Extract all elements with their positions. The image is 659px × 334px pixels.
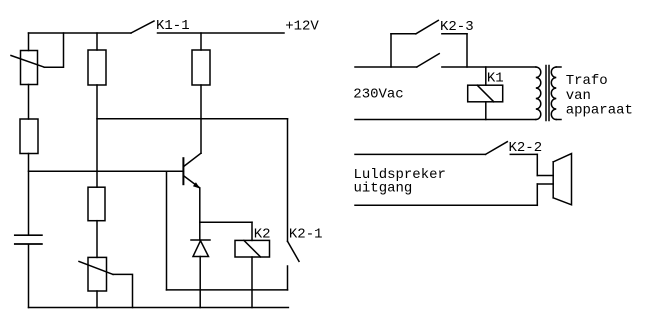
switch K2-3 upper blade: [416, 20, 438, 33]
resistor R1 body: [21, 51, 38, 85]
wire emitter vertical: [199, 188, 201, 240]
capacitor C1 plate top: [15, 234, 42, 236]
resistor R5 body: [88, 257, 107, 291]
wire secondary stub bottom: [556, 119, 561, 121]
wire column2 bottom: [96, 291, 98, 308]
wire emitter to relay branch: [200, 221, 252, 223]
wire detour right vertical: [466, 34, 468, 67]
svg-text:Trafo: Trafo: [566, 73, 608, 89]
wire 230V top right: [442, 66, 536, 68]
diode D1 cathode bar: [191, 239, 210, 241]
wire speaker terminal bottom: [537, 183, 553, 185]
svg-text:+12V: +12V: [285, 18, 319, 34]
svg-text:230Vac: 230Vac: [353, 87, 403, 103]
wire speaker top right: [510, 153, 537, 155]
wire relay K1 top lead: [485, 67, 487, 85]
switch K2-1 blade: [288, 241, 300, 261]
relay coil K1 diagonal: [477, 85, 494, 102]
svg-text:K1-1: K1-1: [156, 18, 190, 34]
wire speaker top left: [355, 153, 486, 155]
transformer T1 core line 1: [545, 66, 547, 121]
diode D1 triangle: [193, 241, 209, 257]
wire column1 between R1 and R3: [28, 85, 30, 120]
wire detour top left: [391, 33, 416, 35]
wire speaker bottom vertical: [536, 184, 538, 205]
wire switch K2-1 top: [287, 119, 289, 242]
wire top rail right segment: [158, 32, 285, 34]
wire relay K1 bottom lead: [485, 102, 487, 120]
wire speaker terminal top: [537, 175, 553, 177]
resistor R5 adjust arrow: [79, 262, 113, 275]
resistor R3 body: [20, 119, 38, 154]
wire relay K2 bottom lead: [251, 257, 253, 308]
transformer T1 core line 2: [548, 66, 550, 121]
wire diode to bottom rail: [199, 257, 201, 308]
wire 230V top left: [355, 66, 417, 68]
resistor R4 body: [88, 187, 105, 221]
wire R1 wiper to rail: [44, 33, 63, 67]
svg-text:K2-3: K2-3: [440, 19, 474, 35]
wire top rail left segment: [29, 32, 132, 34]
speaker LS1 cone: [553, 154, 571, 205]
capacitor C1 plate bottom: [15, 243, 42, 245]
relay coil K1 body: [468, 85, 503, 102]
switch K1-1 blade: [131, 21, 154, 33]
svg-text:K1: K1: [487, 71, 504, 87]
relay coil K2 diagonal: [244, 240, 261, 257]
wire base line node: [29, 170, 184, 172]
wire 230V bottom: [355, 119, 536, 121]
transistor Q1 collector lead: [184, 153, 201, 166]
wire column1 top: [28, 33, 30, 51]
transistor Q1 emitter lead: [184, 176, 200, 188]
transistor Q1 base bar: [182, 158, 184, 184]
wire R5 wiper to bottom rail: [113, 274, 133, 307]
wire base branch vertical: [166, 171, 168, 290]
svg-text:K2: K2: [254, 227, 271, 243]
transistor Q1 emitter arrowhead: [193, 182, 200, 188]
wire bottom rail: [29, 307, 289, 309]
svg-text:uitgang: uitgang: [354, 181, 413, 197]
wire column1 bottom: [28, 244, 30, 307]
transformer T1 secondary winding: [551, 67, 556, 120]
speaker LS1 bar: [552, 162, 554, 198]
wire column2 middle: [96, 85, 98, 187]
resistor R1 adjust arrow: [11, 56, 44, 68]
wire speaker bottom: [355, 204, 537, 206]
wire secondary stub top: [556, 66, 561, 68]
switch K2-3 lower blade: [417, 54, 439, 67]
svg-text:K2-1: K2-1: [289, 227, 323, 243]
wire between R4 and R5: [96, 221, 98, 258]
wire mid horizontal node: [97, 118, 288, 120]
wire column3 top: [200, 33, 202, 50]
wire column1 below R3: [28, 154, 30, 235]
wire column2 top: [96, 33, 98, 50]
svg-text:van: van: [566, 88, 591, 104]
svg-text:apparaat: apparaat: [566, 103, 633, 119]
wire detour top right: [442, 33, 467, 35]
wire switch K2-1 bottom: [287, 266, 289, 290]
wire speaker top vertical: [536, 154, 538, 175]
transformer T1 primary winding: [536, 67, 541, 120]
resistor R2 body: [88, 50, 106, 85]
resistor R6 body: [192, 50, 210, 85]
wire K2-1 to base branch: [167, 289, 288, 291]
relay coil K2 body: [235, 240, 270, 257]
wire detour left vertical: [390, 34, 392, 67]
wire relay K2 top lead: [251, 222, 253, 240]
wire collector vertical: [200, 85, 202, 153]
switch K2-2 blade: [486, 142, 508, 155]
